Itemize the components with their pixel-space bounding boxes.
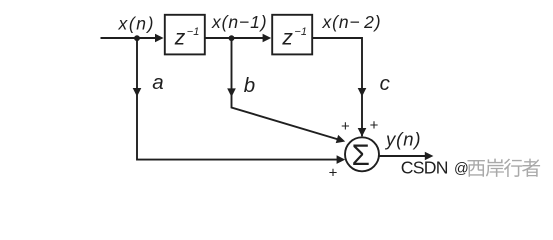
wire: input x(n) horizontal into first delay block [101,37,157,39]
svg-text:c: c [380,72,391,95]
node: junction dot on x(n-1) wire (tap b) [229,35,235,41]
wire: branch c, x(n-2) output right then down into summer [312,38,362,136]
svg-text:CSDN @: CSDN @ [401,157,468,177]
node: junction dot on x(n) wire (tap a) [134,35,140,41]
svg-text:Σ: Σ [352,139,370,172]
watermark CSDN [401,157,540,177]
arrowhead branch c into summer top [358,128,367,137]
summer U1: summation node circle [345,137,379,171]
arrowhead mid branch a [133,88,142,97]
svg-text:z: z [281,27,293,50]
svg-text:−1: −1 [294,26,307,38]
svg-text:b: b [244,74,255,97]
svg-text:x(n−2): x(n−2) [322,12,382,32]
svg-text:x(n): x(n) [118,14,156,34]
block Z1: first unit delay z^-1 [165,15,205,55]
arrowhead mid branch b [227,88,236,97]
wire: x(n-1) from first block to second block [205,37,264,39]
svg-text:x(n−1): x(n−1) [211,12,268,32]
svg-text:y(n): y(n) [384,128,421,149]
arrowhead mid branch c [358,88,367,97]
arrowhead branch a into summer left [337,155,346,164]
svg-text:−1: −1 [187,26,200,38]
svg-text:a: a [152,71,163,94]
svg-text:+: + [329,165,338,182]
block Z2: second unit delay z^-1 [272,15,312,55]
svg-text:+: + [341,118,350,135]
svg-text:+: + [370,117,379,134]
svg-text:z: z [174,27,186,50]
wire: branch b, down from x(n-1) tap then diagonal into summer [232,38,339,139]
wire: branch a, down from x(n) tap then right into summer [137,38,338,160]
arrowhead branch b into summer upper-left [336,135,347,146]
wire: output y(n) from summer [379,155,426,157]
